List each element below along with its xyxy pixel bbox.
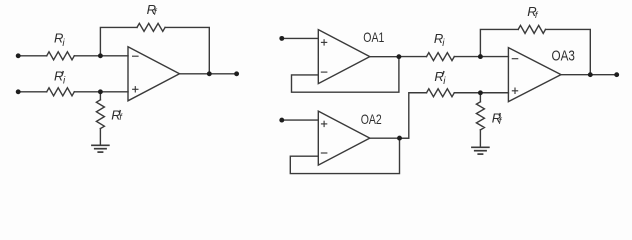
svg-text:OA1: OA1 bbox=[363, 30, 384, 45]
svg-text:OA3: OA3 bbox=[552, 49, 575, 65]
svg-text:OA2: OA2 bbox=[361, 112, 382, 127]
svg-text:R: R bbox=[54, 69, 63, 84]
